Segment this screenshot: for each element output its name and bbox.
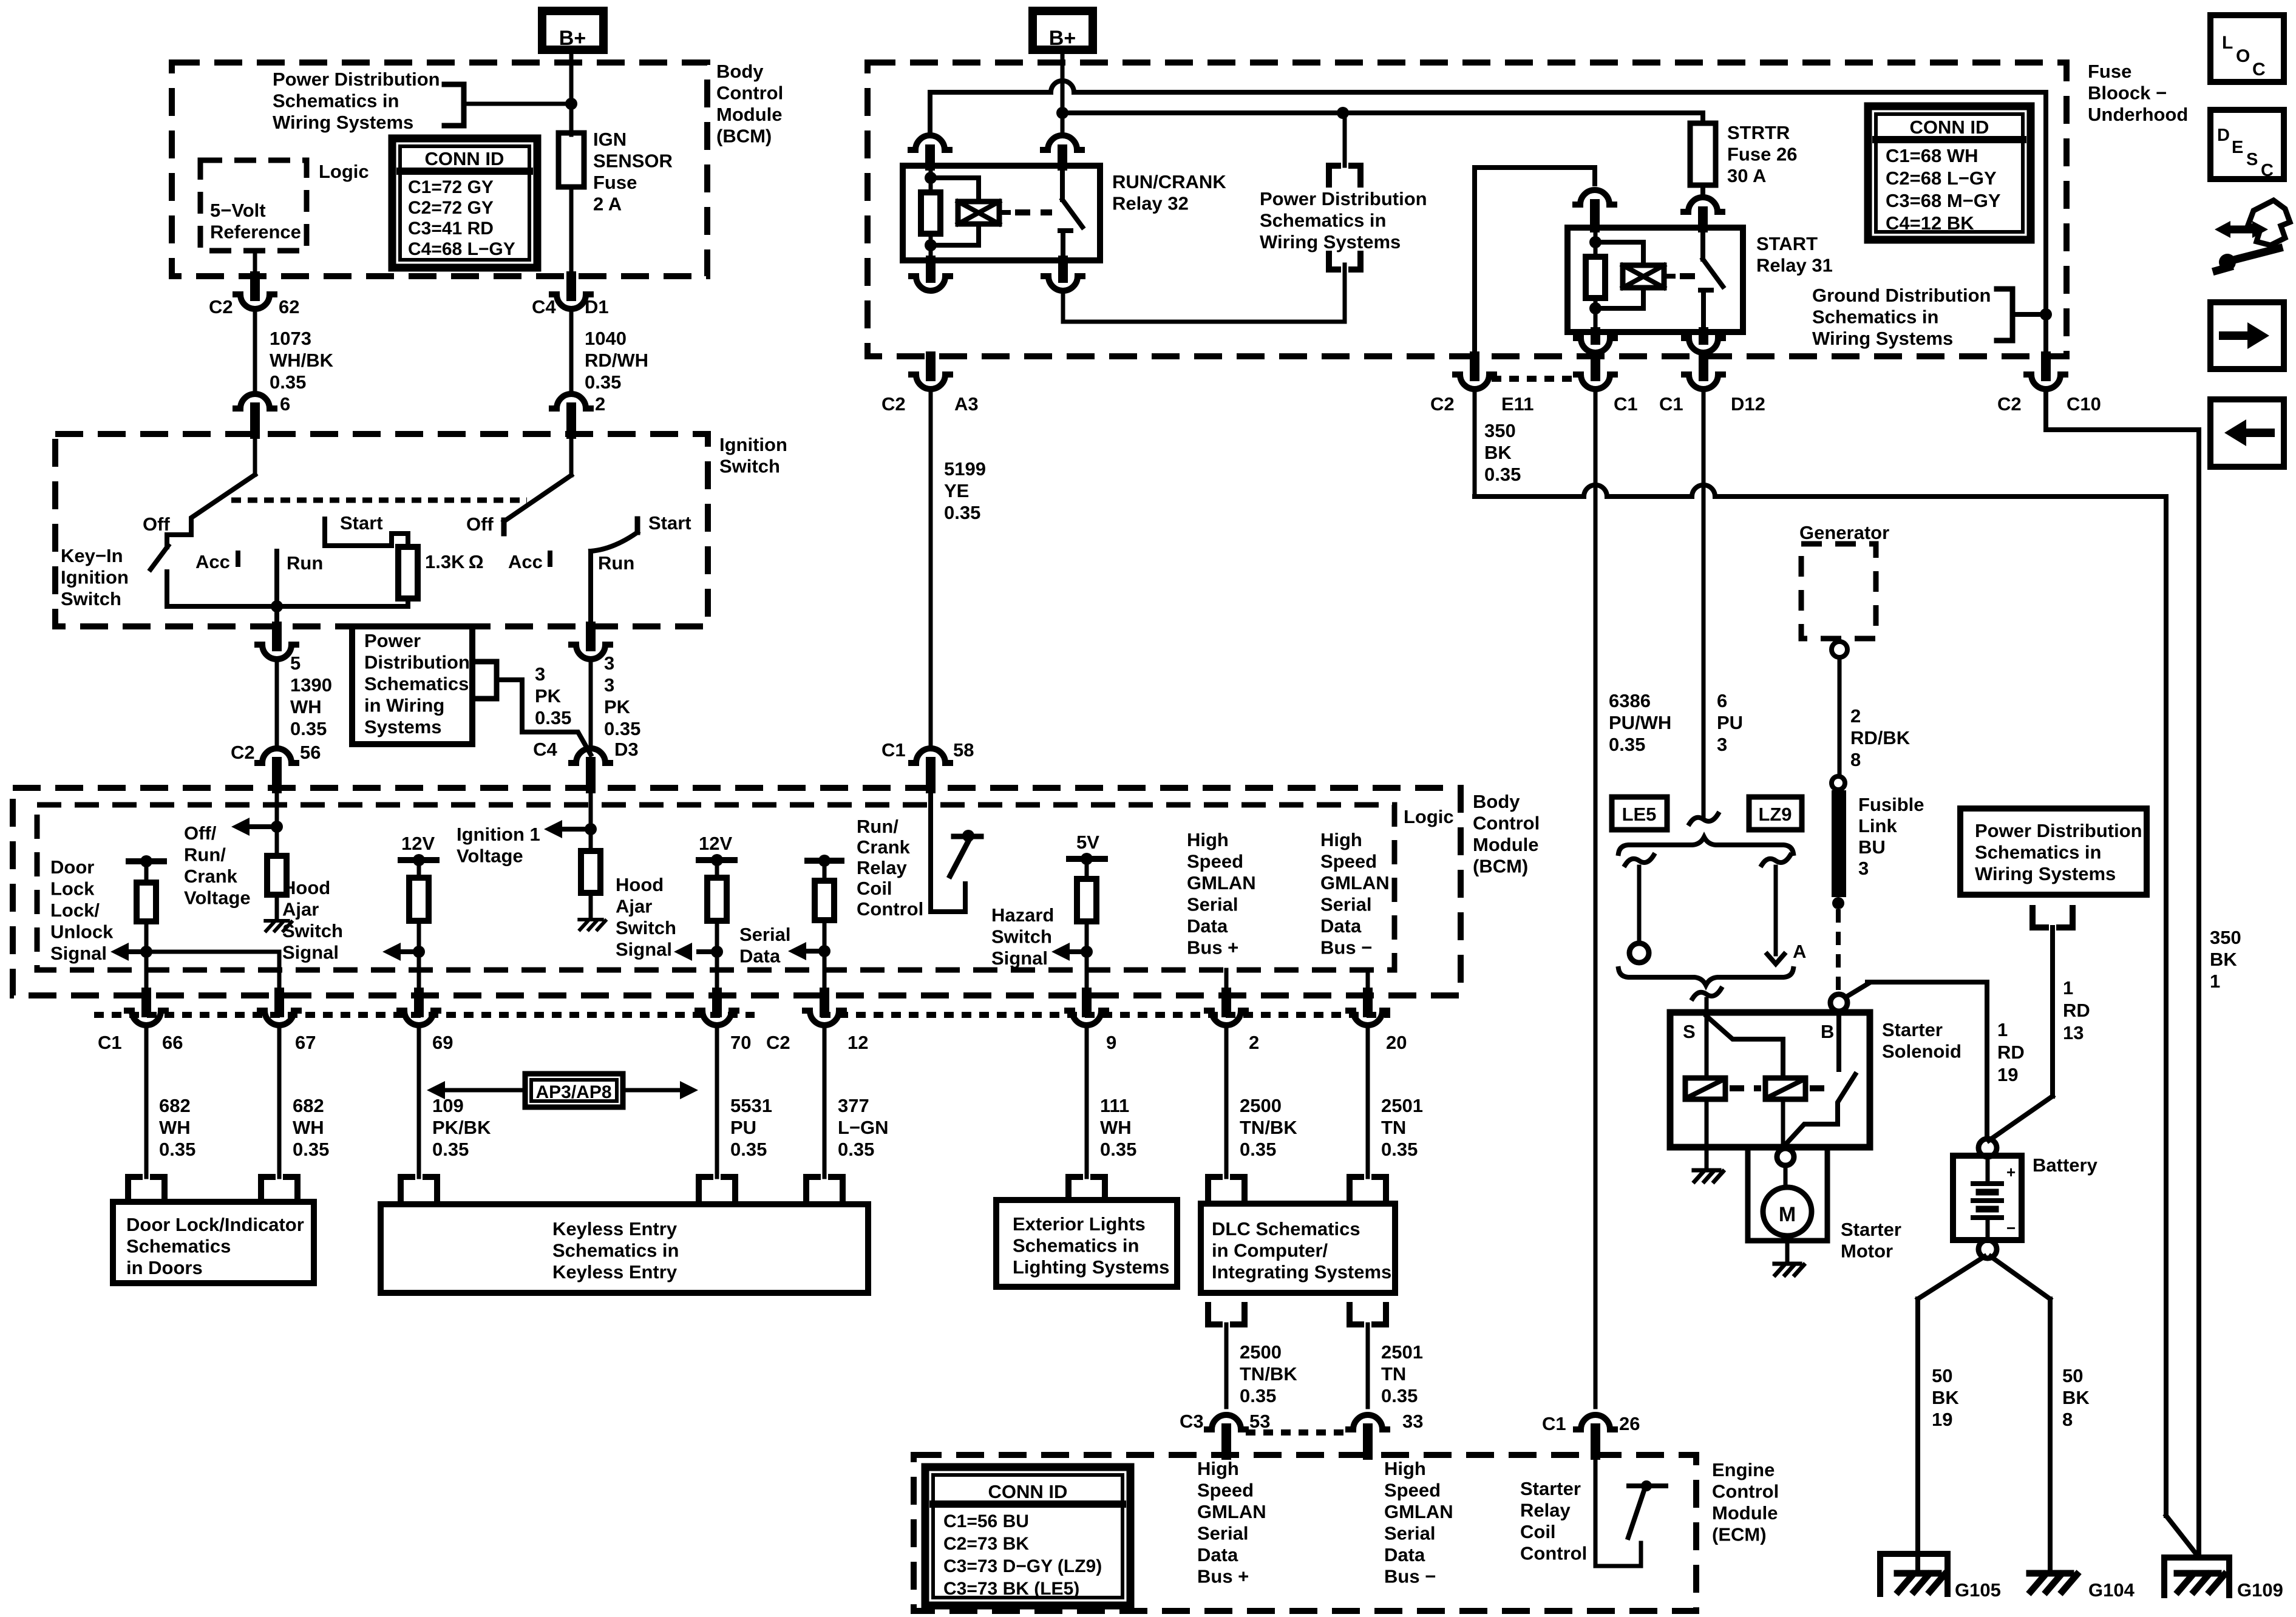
battery positive circle bbox=[1978, 1139, 1997, 1157]
off/run/crank voltage wire from pin 56 bbox=[275, 788, 279, 856]
wire 1390 WH bbox=[275, 663, 279, 744]
ground G109 bbox=[2177, 1570, 2218, 1577]
connector pin 53 (ECM in) bbox=[1207, 1415, 1246, 1429]
generator output terminal circle bbox=[1832, 642, 1847, 657]
svg-text:C3: C3 bbox=[1180, 1411, 1204, 1432]
svg-text:C2: C2 bbox=[209, 296, 233, 317]
svg-text:Speed: Speed bbox=[1187, 851, 1243, 872]
svg-text:Acc: Acc bbox=[508, 551, 543, 572]
Fuse Block - Underhood dashed box bbox=[868, 63, 2067, 356]
battery negative split bbox=[1918, 1256, 1985, 1299]
svg-text:C2=72 GY: C2=72 GY bbox=[408, 198, 494, 218]
Door Lock/Indicator Schematics in Doors box bbox=[113, 1202, 314, 1283]
svg-text:111: 111 bbox=[1100, 1095, 1129, 1116]
5V rail hazard bbox=[1069, 856, 1105, 862]
curved wiper Start-Run (right) bbox=[591, 532, 637, 551]
svg-text:D: D bbox=[2217, 126, 2230, 145]
node ground distribution tap bbox=[2040, 308, 2052, 320]
ground G105 staple bbox=[1880, 1554, 1948, 1594]
contact Run wire down to bus bbox=[274, 551, 279, 626]
svg-text:CONN ID: CONN ID bbox=[425, 148, 504, 169]
wire 3 PK jog to D3 bbox=[497, 680, 591, 754]
staple entry pin 12 (keyless box) bbox=[806, 1177, 843, 1204]
fusible link bottom dot bbox=[1832, 897, 1844, 909]
svg-text:Module: Module bbox=[716, 104, 783, 125]
arrow off/run/crank voltage bbox=[250, 824, 277, 829]
svg-text:58: 58 bbox=[953, 739, 974, 761]
svg-text:SENSOR: SENSOR bbox=[593, 151, 673, 172]
svg-text:Door: Door bbox=[50, 856, 94, 878]
Ignition Switch dashed box bbox=[55, 434, 708, 626]
resistor hood ajar pull-up (69) bbox=[409, 878, 429, 921]
svg-text:C1: C1 bbox=[881, 739, 906, 761]
fuse STRTR Fuse 26 30A bbox=[1690, 123, 1716, 185]
connector pin 56 (BCM in) bbox=[257, 748, 296, 763]
svg-text:C1=72 GY: C1=72 GY bbox=[408, 177, 494, 197]
svg-text:Signal: Signal bbox=[50, 943, 107, 964]
svg-text:682: 682 bbox=[159, 1095, 191, 1116]
wire B junction to battery feed bbox=[1846, 983, 1869, 997]
svg-text:D3: D3 bbox=[614, 739, 639, 760]
hop over 6 PU wire bbox=[1692, 485, 1715, 497]
wire S branch to second coil bbox=[1707, 1016, 1783, 1078]
wire motor to ground bbox=[1785, 1236, 1790, 1263]
arrow hood ajar switch signal (69) bbox=[401, 949, 419, 954]
wire relay32 coil feed horizontal bbox=[930, 90, 1051, 95]
svg-text:Logic: Logic bbox=[319, 161, 369, 182]
svg-text:B+: B+ bbox=[559, 27, 586, 50]
icon forward arrow box bbox=[2210, 302, 2284, 369]
wire 2501 TN to ECM bbox=[1366, 1324, 1370, 1407]
icon back arrow box bbox=[2210, 399, 2284, 467]
svg-text:0.35: 0.35 bbox=[1240, 1139, 1276, 1160]
svg-text:2500: 2500 bbox=[1240, 1095, 1282, 1116]
svg-text:Run/: Run/ bbox=[184, 844, 226, 866]
staple exit DLC (2500) bbox=[1208, 1305, 1245, 1324]
svg-text:5−Volt: 5−Volt bbox=[210, 200, 266, 221]
svg-text:Underhood: Underhood bbox=[2088, 104, 2188, 125]
brace merge bottom bbox=[1618, 969, 1793, 985]
svg-text:LZ9: LZ9 bbox=[1758, 804, 1792, 825]
ground G109 staple bbox=[2164, 1558, 2229, 1595]
svg-text:Wiring Systems: Wiring Systems bbox=[273, 112, 413, 133]
wire 6 PU down to transmission select bbox=[1702, 394, 1706, 816]
svg-text:A: A bbox=[1793, 941, 1806, 962]
svg-text:0.35: 0.35 bbox=[432, 1139, 469, 1160]
svg-text:6: 6 bbox=[280, 393, 290, 415]
connector C2 pin A3 (fuse block out) bbox=[926, 356, 936, 376]
icon DESC box bbox=[2210, 110, 2284, 179]
B+ terminal box (left) bbox=[542, 11, 603, 50]
svg-text:C2: C2 bbox=[1997, 393, 2022, 415]
svg-text:0.35: 0.35 bbox=[159, 1139, 195, 1160]
svg-text:0.35: 0.35 bbox=[838, 1139, 874, 1160]
svg-text:350: 350 bbox=[2210, 927, 2241, 948]
svg-text:Bloock −: Bloock − bbox=[2088, 83, 2167, 104]
12V rail pin 69 bbox=[401, 857, 436, 863]
arrow hazard switch signal bbox=[1068, 949, 1087, 954]
contact Run wire down (right) bbox=[588, 551, 593, 626]
CONN ID table (fuse block) bbox=[1868, 106, 2031, 240]
AP3/AP8 splice box bbox=[525, 1074, 623, 1107]
wire door lock signal to pin 67 bbox=[146, 952, 279, 992]
svg-text:1: 1 bbox=[1997, 1019, 2008, 1040]
svg-text:TN/BK: TN/BK bbox=[1240, 1117, 1297, 1138]
ground G104 bbox=[2029, 1570, 2071, 1577]
svg-text:RD: RD bbox=[1997, 1042, 2025, 1063]
hop over 6386 wire bbox=[1584, 485, 1607, 497]
curl LE5 branch bbox=[1625, 855, 1654, 865]
svg-text:GMLAN: GMLAN bbox=[1320, 872, 1390, 893]
svg-text:Power Distribution: Power Distribution bbox=[273, 69, 440, 90]
wire 350 BK 0.35 right drop to G109 bbox=[2164, 497, 2169, 1516]
svg-text:33: 33 bbox=[1402, 1411, 1423, 1432]
svg-text:Signal: Signal bbox=[282, 942, 339, 963]
mechanical link dotted line bbox=[231, 498, 527, 503]
fuse F-IGN SENSOR 2A bbox=[559, 133, 584, 187]
svg-text:3: 3 bbox=[604, 653, 614, 674]
svg-text:Run: Run bbox=[287, 552, 323, 574]
connector C4 pin D3 (ignition out) bbox=[586, 626, 596, 646]
svg-text:Speed: Speed bbox=[1320, 851, 1377, 872]
svg-text:26: 26 bbox=[1619, 1413, 1640, 1434]
svg-text:Data: Data bbox=[1187, 915, 1228, 937]
svg-text:Fusible: Fusible bbox=[1858, 794, 1924, 815]
battery cell plates bbox=[1986, 1156, 1990, 1182]
LZ9 branch hook bbox=[1767, 954, 1784, 964]
svg-text:Battery: Battery bbox=[2033, 1154, 2098, 1176]
svg-text:O: O bbox=[2236, 46, 2250, 66]
svg-text:C1=68 WH: C1=68 WH bbox=[1886, 145, 1978, 166]
connector relay31 coil top bbox=[1575, 190, 1614, 205]
svg-text:E: E bbox=[2232, 138, 2243, 157]
wire 5-volt ref to C2 pin bbox=[253, 251, 257, 276]
svg-text:19: 19 bbox=[1932, 1409, 1952, 1430]
arrow hood ajar switch signal (70) bbox=[699, 949, 717, 954]
svg-text:C2: C2 bbox=[1430, 393, 1455, 415]
node hood ajar signal (70) bbox=[711, 946, 723, 958]
svg-text:C1: C1 bbox=[1659, 393, 1683, 415]
12V rail pin 70 bbox=[699, 857, 735, 863]
svg-text:1073: 1073 bbox=[270, 328, 311, 349]
svg-text:Control: Control bbox=[1473, 813, 1540, 834]
curl end of 6 PU wire bbox=[1690, 814, 1718, 824]
svg-text:in Computer/: in Computer/ bbox=[1212, 1240, 1328, 1261]
svg-text:2500: 2500 bbox=[1240, 1341, 1282, 1363]
svg-text:Speed: Speed bbox=[1197, 1480, 1254, 1501]
dashed wire fusible link to B terminal bbox=[1836, 909, 1841, 994]
svg-text:Starter: Starter bbox=[1882, 1019, 1943, 1040]
contact tick Start (right) bbox=[635, 519, 640, 532]
wire motor terminal bbox=[1784, 1165, 1788, 1187]
svg-text:WH: WH bbox=[293, 1117, 324, 1138]
svg-text:Coil: Coil bbox=[857, 878, 892, 899]
staple entry pin 20 (DLC box) bbox=[1350, 1177, 1386, 1204]
wire bracket to B+ node bbox=[464, 102, 567, 106]
relay31 switch bbox=[1700, 228, 1705, 259]
connector pin 12 (BCM bottom) bbox=[820, 992, 829, 1012]
wire GMLAN bus- (pin 20) bbox=[1366, 970, 1370, 992]
svg-text:6: 6 bbox=[1717, 690, 1727, 711]
svg-text:Bus −: Bus − bbox=[1320, 937, 1372, 958]
CONN ID table (ECM) bbox=[925, 1467, 1130, 1605]
contact tick Acc (right) bbox=[548, 553, 552, 564]
svg-text:12: 12 bbox=[847, 1032, 868, 1053]
ground (off/run/crank) bbox=[265, 919, 288, 923]
resistor ignition 1 pulldown bbox=[581, 851, 600, 893]
svg-text:GMLAN: GMLAN bbox=[1384, 1501, 1453, 1522]
svg-text:Fuse: Fuse bbox=[593, 172, 637, 193]
svg-text:Schematics in: Schematics in bbox=[1260, 210, 1386, 231]
svg-text:C2: C2 bbox=[881, 393, 906, 415]
svg-text:Body: Body bbox=[1473, 791, 1520, 812]
svg-text:0.35: 0.35 bbox=[1240, 1385, 1276, 1406]
connector pin 2 (BCM bottom) bbox=[1221, 992, 1231, 1012]
svg-text:Relay: Relay bbox=[1520, 1500, 1571, 1521]
svg-text:BU: BU bbox=[1858, 836, 1886, 858]
node serial data bbox=[818, 945, 830, 957]
resistor door lock pull-up bbox=[137, 883, 156, 921]
svg-text:0.35: 0.35 bbox=[535, 707, 571, 728]
relay31 mechanical dash link bbox=[1680, 273, 1700, 279]
svg-text:Distribution: Distribution bbox=[364, 652, 470, 673]
wire 2 RD/BK bbox=[1838, 657, 1842, 776]
starter motor M circle bbox=[1763, 1187, 1812, 1236]
ground (starter motor) bbox=[1775, 1262, 1800, 1266]
svg-text:0.35: 0.35 bbox=[944, 502, 980, 523]
node hazard switch signal bbox=[1081, 946, 1093, 958]
svg-text:RUN/CRANK: RUN/CRANK bbox=[1112, 171, 1226, 192]
svg-text:50: 50 bbox=[1932, 1365, 1952, 1386]
wire 377 L-GN (12) bbox=[823, 1030, 827, 1177]
arrow door lock signal bbox=[129, 949, 146, 954]
svg-text:G104: G104 bbox=[2088, 1579, 2135, 1601]
svg-text:12V: 12V bbox=[401, 833, 435, 854]
Power Distribution reference box (mid-left) bbox=[352, 626, 472, 744]
svg-text:Hazard: Hazard bbox=[991, 904, 1054, 926]
svg-text:(BCM): (BCM) bbox=[1473, 856, 1528, 877]
svg-text:Off: Off bbox=[143, 514, 170, 535]
connector pin 66 (BCM bottom) bbox=[141, 992, 151, 1012]
relay32 mechanical dash link bbox=[1015, 209, 1052, 215]
svg-text:9: 9 bbox=[1106, 1032, 1116, 1053]
svg-text:Data: Data bbox=[1384, 1544, 1425, 1565]
svg-text:Systems: Systems bbox=[364, 716, 442, 737]
svg-text:C1: C1 bbox=[98, 1032, 122, 1053]
wire 5531 PU (70) bbox=[715, 1030, 719, 1177]
svg-text:Ajar: Ajar bbox=[282, 899, 319, 920]
svg-text:PU: PU bbox=[730, 1117, 756, 1138]
svg-text:G105: G105 bbox=[1955, 1579, 2001, 1601]
connector row dotted line C2 bbox=[821, 1012, 1390, 1018]
svg-text:Acc: Acc bbox=[195, 551, 230, 572]
right ignition switch arm bbox=[569, 434, 574, 475]
wire 2501 TN (20) bbox=[1366, 1030, 1370, 1177]
wire 1073 WH/BK bbox=[253, 314, 257, 390]
svg-text:Relay 32: Relay 32 bbox=[1112, 193, 1189, 214]
wire 682 WH (67) bbox=[277, 1030, 282, 1177]
connector relay31 coil bottom bbox=[1591, 332, 1600, 340]
svg-text:0.35: 0.35 bbox=[293, 1139, 329, 1160]
svg-text:350: 350 bbox=[1484, 420, 1516, 441]
svg-text:53: 53 bbox=[1249, 1411, 1270, 1432]
solenoid switch blade bbox=[1783, 1074, 1855, 1147]
svg-text:Schematics in: Schematics in bbox=[1013, 1235, 1139, 1256]
svg-text:DLC Schematics: DLC Schematics bbox=[1212, 1218, 1360, 1239]
svg-text:5V: 5V bbox=[1076, 832, 1099, 853]
svg-text:Switch: Switch bbox=[616, 917, 676, 938]
svg-text:1: 1 bbox=[2063, 977, 2073, 998]
svg-text:66: 66 bbox=[162, 1032, 183, 1053]
svg-text:Control: Control bbox=[1712, 1481, 1779, 1502]
wire 109 PK/BK (69) bbox=[417, 1030, 421, 1177]
svg-text:0.35: 0.35 bbox=[1100, 1139, 1136, 1160]
svg-text:Control: Control bbox=[1520, 1543, 1587, 1564]
svg-text:5199: 5199 bbox=[944, 458, 986, 480]
svg-text:0.35: 0.35 bbox=[1609, 734, 1645, 755]
svg-text:C4=68 L−GY: C4=68 L−GY bbox=[408, 239, 515, 259]
svg-text:Switch: Switch bbox=[719, 456, 780, 477]
svg-text:Power Distribution: Power Distribution bbox=[1260, 188, 1427, 209]
svg-text:Bus +: Bus + bbox=[1197, 1566, 1249, 1587]
staple entry pin 66 (door lock box) bbox=[128, 1177, 165, 1202]
svg-text:C1=56 BU: C1=56 BU bbox=[943, 1511, 1029, 1531]
resistor hazard pull-up bbox=[1077, 879, 1096, 921]
wire 5199 YE bbox=[929, 394, 933, 744]
connector pin 69 (BCM bottom) bbox=[414, 992, 424, 1012]
icon wrench and arrows glyph bbox=[2248, 200, 2290, 245]
power distribution page marker (top staple) bbox=[1343, 113, 1347, 166]
svg-text:GMLAN: GMLAN bbox=[1187, 872, 1256, 893]
svg-text:1390: 1390 bbox=[290, 674, 332, 696]
svg-text:Key−In: Key−In bbox=[61, 545, 123, 566]
svg-text:Generator: Generator bbox=[1799, 522, 1889, 543]
svg-text:Wiring Systems: Wiring Systems bbox=[1260, 231, 1401, 253]
svg-text:0.35: 0.35 bbox=[730, 1139, 767, 1160]
svg-text:PK/BK: PK/BK bbox=[432, 1117, 491, 1138]
svg-text:C4: C4 bbox=[532, 296, 556, 317]
svg-text:Switch: Switch bbox=[61, 588, 121, 609]
svg-text:C4=12 BK: C4=12 BK bbox=[1886, 212, 1974, 234]
Exterior Lights Schematics in Lighting Systems box bbox=[996, 1200, 1177, 1287]
svg-text:C: C bbox=[2252, 59, 2266, 80]
node power distribution tap bbox=[1337, 107, 1349, 119]
connector pin 58 (BCM in) bbox=[911, 748, 950, 763]
svg-text:in Wiring: in Wiring bbox=[364, 695, 444, 716]
svg-text:C3=68 M−GY: C3=68 M−GY bbox=[1886, 190, 2001, 211]
motor terminal circle bbox=[1777, 1148, 1794, 1165]
svg-text:Data: Data bbox=[739, 946, 781, 967]
svg-text:Relay: Relay bbox=[857, 857, 907, 878]
wire hop over B+ wire bbox=[1051, 81, 1074, 92]
connector pin 9 (BCM bottom) bbox=[1082, 992, 1092, 1012]
svg-text:30 A: 30 A bbox=[1727, 165, 1766, 186]
ground G105 bbox=[1897, 1570, 1938, 1577]
svg-text:Signal: Signal bbox=[991, 947, 1048, 969]
svg-text:Schematics in: Schematics in bbox=[273, 90, 399, 112]
svg-text:0.35: 0.35 bbox=[585, 371, 621, 393]
svg-text:5: 5 bbox=[290, 653, 301, 674]
svg-text:Module: Module bbox=[1712, 1502, 1778, 1524]
svg-text:1040: 1040 bbox=[585, 328, 627, 349]
svg-text:C3=41 RD: C3=41 RD bbox=[408, 219, 494, 239]
svg-text:Data: Data bbox=[1197, 1544, 1238, 1565]
ECM connector dotted link bbox=[1246, 1429, 1349, 1436]
svg-text:(BCM): (BCM) bbox=[716, 126, 772, 147]
connector pin 6 (ignition switch in) bbox=[236, 394, 274, 408]
svg-text:50: 50 bbox=[2062, 1365, 2083, 1386]
svg-text:Speed: Speed bbox=[1384, 1480, 1441, 1501]
svg-text:Off/: Off/ bbox=[184, 822, 217, 844]
svg-text:1: 1 bbox=[2210, 971, 2220, 992]
svg-text:Integrating Systems: Integrating Systems bbox=[1212, 1261, 1391, 1283]
svg-text:2: 2 bbox=[595, 393, 605, 415]
svg-text:1.3K Ω: 1.3K Ω bbox=[425, 551, 484, 572]
wire 350 BK 1 drop (right edge of fuse block) bbox=[2043, 92, 2048, 356]
wire B+ down into BCM bbox=[569, 53, 574, 135]
svg-text:3: 3 bbox=[1858, 858, 1869, 879]
svg-text:3: 3 bbox=[535, 663, 545, 685]
solenoid mechanical dash link bbox=[1730, 1085, 1761, 1091]
relay RUN/CRANK Relay 32 box bbox=[903, 166, 1100, 260]
svg-text:WH: WH bbox=[1100, 1117, 1132, 1138]
svg-text:Body: Body bbox=[716, 61, 764, 82]
svg-text:Serial: Serial bbox=[1320, 894, 1371, 915]
Battery box bbox=[1953, 1156, 2022, 1240]
wire S terminal down bbox=[1705, 1012, 1709, 1078]
contact tick Off (right) bbox=[501, 520, 507, 534]
svg-text:High: High bbox=[1320, 829, 1362, 850]
connector relay32 switch bottom bbox=[1058, 260, 1068, 278]
wire coil2 to motor junction bbox=[1781, 1099, 1785, 1148]
resistor hood ajar pull-up (70) bbox=[707, 878, 727, 921]
svg-text:5531: 5531 bbox=[730, 1095, 772, 1116]
svg-text:C2=68 L−GY: C2=68 L−GY bbox=[1886, 168, 1997, 189]
svg-text:0.35: 0.35 bbox=[270, 371, 306, 393]
Starter Solenoid box bbox=[1670, 1012, 1870, 1147]
relay32 coil element bbox=[931, 178, 979, 202]
svg-text:Switch: Switch bbox=[282, 920, 343, 941]
svg-text:70: 70 bbox=[730, 1032, 751, 1053]
node ignition 1 voltage bbox=[585, 823, 597, 835]
connector relay32 switch top bbox=[1043, 135, 1082, 150]
wire 1 RD 19 down to battery bbox=[1985, 982, 1989, 1139]
svg-text:Ignition: Ignition bbox=[719, 434, 787, 455]
svg-text:Starter: Starter bbox=[1520, 1478, 1581, 1499]
svg-text:Serial: Serial bbox=[1187, 894, 1238, 915]
svg-text:BK: BK bbox=[2062, 1387, 2090, 1408]
svg-text:CONN ID: CONN ID bbox=[988, 1481, 1068, 1502]
svg-text:Control: Control bbox=[857, 898, 923, 920]
svg-text:GMLAN: GMLAN bbox=[1197, 1501, 1266, 1522]
svg-text:WH/BK: WH/BK bbox=[270, 350, 334, 371]
battery negative circle bbox=[1978, 1240, 1997, 1258]
svg-text:Voltage: Voltage bbox=[184, 887, 251, 909]
wire 2500 TN/BK (2) bbox=[1224, 1030, 1229, 1177]
Logic dashed box (BCM upper) bbox=[200, 160, 307, 251]
svg-text:Exterior Lights: Exterior Lights bbox=[1013, 1213, 1146, 1235]
svg-text:D1: D1 bbox=[585, 296, 609, 317]
svg-text:Run: Run bbox=[598, 552, 634, 574]
svg-text:2501: 2501 bbox=[1381, 1341, 1423, 1363]
connector C2 pin 56 (ignition out) bbox=[272, 626, 282, 646]
curl LZ9 branch bbox=[1762, 855, 1790, 865]
svg-text:−: − bbox=[2006, 1219, 2016, 1237]
wire relay32 switch output to power distribution bbox=[1063, 265, 1345, 322]
svg-text:8: 8 bbox=[1850, 749, 1861, 770]
svg-text:Schematics in: Schematics in bbox=[552, 1240, 679, 1261]
wire 6386 PU/WH down to ECM bbox=[1594, 394, 1598, 1407]
